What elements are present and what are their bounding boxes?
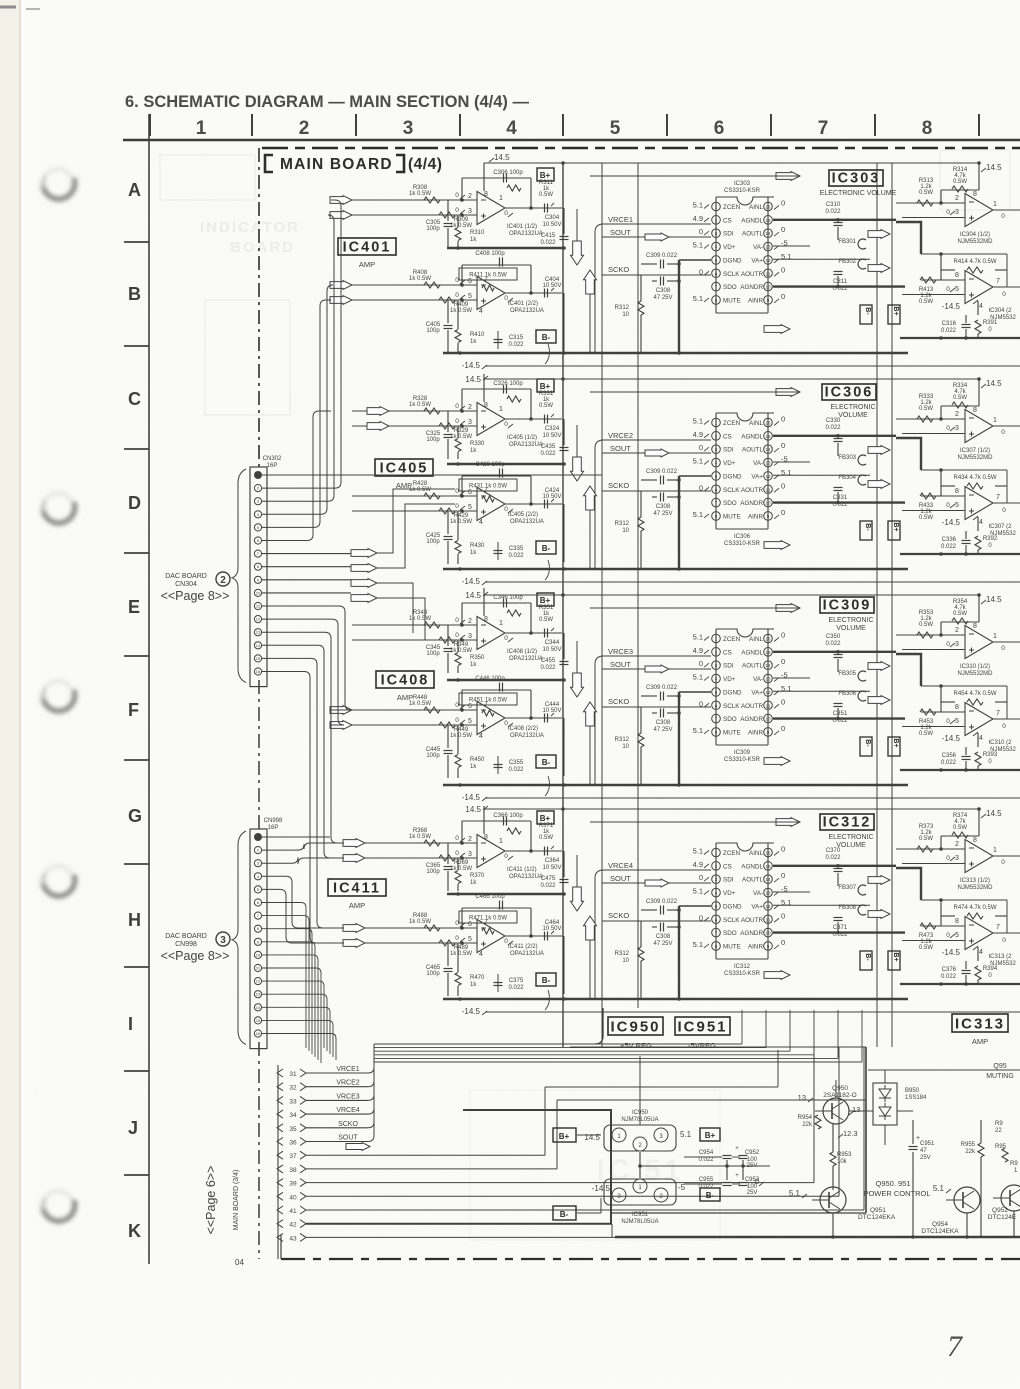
svg-text:7: 7 (947, 1330, 964, 1363)
